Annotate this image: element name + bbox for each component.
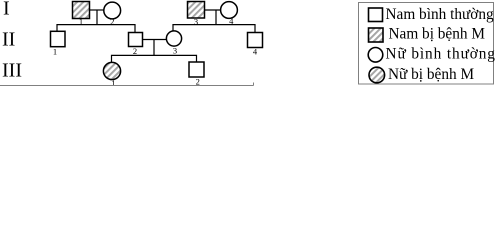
svg-text:1: 1 (79, 17, 83, 27)
svg-text:Nam bình thường: Nam bình thường (386, 6, 495, 23)
svg-text:3: 3 (173, 46, 177, 56)
svg-text:3: 3 (194, 17, 198, 27)
svg-text:II: II (2, 28, 15, 50)
svg-text:4: 4 (229, 16, 234, 26)
svg-text:1: 1 (53, 47, 57, 57)
svg-text:III: III (2, 60, 22, 82)
svg-text:2: 2 (133, 46, 137, 56)
svg-text:Nam bị bệnh M: Nam bị bệnh M (389, 26, 486, 43)
svg-text:Nữ bị bệnh M: Nữ bị bệnh M (388, 66, 474, 83)
svg-text:2: 2 (110, 17, 114, 27)
svg-text:Nữ bình thường: Nữ bình thường (386, 46, 496, 63)
svg-text:I: I (3, 0, 10, 19)
